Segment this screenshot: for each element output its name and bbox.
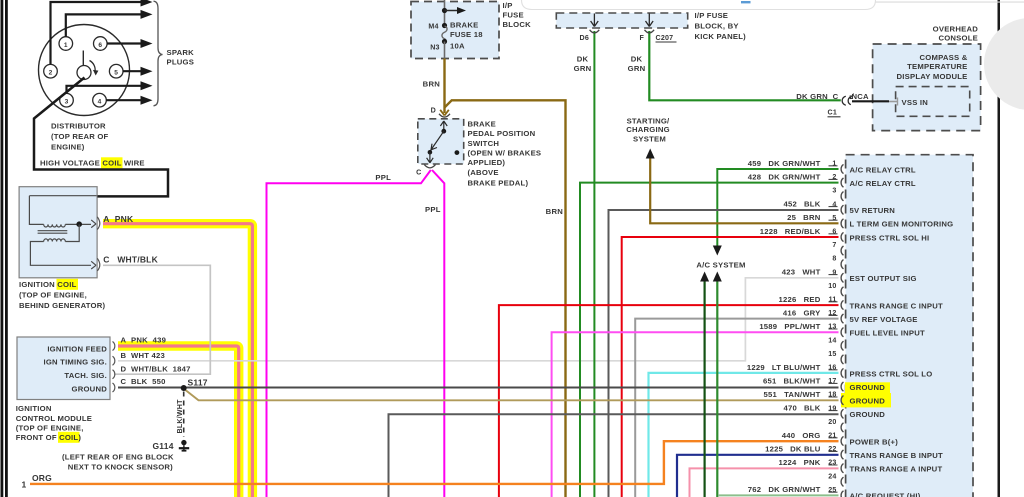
distributor rotor center circle <box>77 66 91 80</box>
wire PNK 439 core (ICM A to bottom) <box>118 346 239 497</box>
svg-text:18: 18 <box>828 391 836 399</box>
yellow highlight: COIL word in FRONT OF COIL <box>58 432 80 443</box>
coil internal left vertical <box>29 196 43 225</box>
F connector arc <box>645 30 655 33</box>
wire BLK 452 (PCM pin 4 down page) <box>609 210 839 497</box>
svg-text:I/P: I/P <box>503 1 513 10</box>
svg-text:16: 16 <box>828 364 836 372</box>
coil core lines <box>38 231 68 234</box>
wire WHT 423 (ICM pin B to PCM pin 9) <box>118 278 839 361</box>
wire BRN tee to right (down page) <box>445 100 566 497</box>
svg-text:1: 1 <box>832 160 836 168</box>
svg-text:VSS IN: VSS IN <box>902 98 929 107</box>
white browser tab overlay top center <box>522 0 876 10</box>
wire PNK core (coil A to bottom) <box>103 224 252 497</box>
svg-text:GROUND: GROUND <box>850 383 886 392</box>
svg-text:21: 21 <box>828 432 836 440</box>
spark plug wire from terminal 5 <box>123 70 142 72</box>
spark plug wire from terminal 1 <box>66 14 142 36</box>
ICM pin B connector arc <box>113 356 115 365</box>
svg-text:TRANS RANGE B INPUT: TRANS RANGE B INPUT <box>850 451 944 460</box>
svg-text:452 BLK: 452 BLK <box>783 200 820 209</box>
svg-text:COMPASS &: COMPASS & <box>920 53 968 62</box>
svg-text:3: 3 <box>832 187 836 195</box>
I/P fuse block box 1 (brake fuse) <box>411 2 499 59</box>
wire BRN (fuse N3 down to brake switch D) <box>443 59 445 114</box>
spark plug wire from terminal 2 (top arrow) <box>51 2 142 64</box>
svg-text:762 DK GRN/WHT: 762 DK GRN/WHT <box>748 485 821 494</box>
svg-text:GROUND: GROUND <box>850 410 886 419</box>
svg-text:(ABOVE: (ABOVE <box>468 168 499 177</box>
wire RED 1226 (PCM pin 11 down page) <box>499 305 839 497</box>
distributor cap terminal 6 <box>94 37 108 51</box>
svg-text:25 BRN: 25 BRN <box>787 213 821 222</box>
svg-text:1226 RED: 1226 RED <box>779 295 821 304</box>
svg-text:19: 19 <box>828 404 836 412</box>
NCA connector arcs at C1 <box>842 96 846 105</box>
svg-text:PPL: PPL <box>375 173 391 182</box>
brake switch pin C connector arc <box>424 165 435 168</box>
svg-text:428 DK GRN/WHT: 428 DK GRN/WHT <box>748 172 821 181</box>
svg-text:1589 PPL/WHT: 1589 PPL/WHT <box>759 322 820 331</box>
wire LT BLU/WHT 1229 (PCM pin 16 down page) <box>649 373 839 497</box>
svg-text:FUSE: FUSE <box>503 11 524 20</box>
svg-text:L TERM GEN MONITORING: L TERM GEN MONITORING <box>850 220 954 229</box>
svg-text:N3: N3 <box>430 44 439 52</box>
D6 connector arc <box>590 30 600 33</box>
svg-text:A PNK 439: A PNK 439 <box>121 336 167 345</box>
svg-text:CHARGING: CHARGING <box>626 125 670 134</box>
coil internal junction to pin A <box>65 223 91 225</box>
svg-text:A/C REQUEST (HI): A/C REQUEST (HI) <box>850 492 921 497</box>
svg-text:470 BLK: 470 BLK <box>783 404 820 413</box>
svg-text:20: 20 <box>828 418 836 426</box>
svg-text:GRN: GRN <box>574 64 592 73</box>
svg-text:C BLK 550: C BLK 550 <box>121 377 166 386</box>
ICM pin A connector arc <box>113 342 115 351</box>
distributor cap terminal 5 <box>109 64 123 78</box>
S117 splice dot <box>181 385 187 391</box>
wire WHT/BLK 1847 (coil pin C to ICM pin D) <box>103 265 210 374</box>
svg-text:13: 13 <box>828 323 836 331</box>
svg-text:BLK/WHT: BLK/WHT <box>176 399 184 434</box>
rotor shaft line <box>82 51 84 66</box>
ignition coil box <box>19 187 97 278</box>
yellow highlight: COIL word in IGNITION COIL <box>57 279 79 290</box>
svg-text:FRONT OF COIL): FRONT OF COIL) <box>16 433 82 442</box>
svg-text:IGNITION COIL: IGNITION COIL <box>19 280 77 289</box>
svg-text:GRN: GRN <box>628 64 646 73</box>
ICM pin D connector arc <box>113 370 115 379</box>
brake switch arm with arrow <box>430 131 444 151</box>
svg-text:4: 4 <box>832 200 836 208</box>
wire PPL/WHT 1589 (PCM pin 13 down page) <box>552 332 839 497</box>
svg-text:459 DK GRN/WHT: 459 DK GRN/WHT <box>748 159 821 168</box>
svg-text:F: F <box>639 34 644 42</box>
svg-text:423 WHT: 423 WHT <box>782 268 821 277</box>
svg-text:A/C RELAY CTRL: A/C RELAY CTRL <box>850 179 916 188</box>
wire BRN 25 (PCM pin 5 to starting/charging arrow) <box>650 156 838 223</box>
svg-text:(OPEN W/ BRAKES: (OPEN W/ BRAKES <box>468 148 542 157</box>
rotation arc arrow <box>90 61 96 72</box>
svg-text:PEDAL POSITION: PEDAL POSITION <box>468 129 536 138</box>
wire DK GRN (F to NCA C1) <box>649 31 841 100</box>
svg-text:416 GRY: 416 GRY <box>783 308 821 317</box>
distributor cap terminal 4 <box>93 93 107 107</box>
svg-text:SPARK: SPARK <box>167 48 195 57</box>
svg-text:DISTRIBUTOR: DISTRIBUTOR <box>51 122 106 131</box>
svg-text:2: 2 <box>49 70 53 77</box>
svg-text:D WHT/BLK 1847: D WHT/BLK 1847 <box>121 365 191 374</box>
overhead console compass & temperature display module box <box>873 44 981 131</box>
brake switch fixed contact dot <box>455 150 460 155</box>
svg-text:OVERHEAD: OVERHEAD <box>933 25 979 34</box>
fuse box: feed wire and arrow <box>444 0 446 27</box>
svg-text:PPL: PPL <box>425 205 441 214</box>
distributor cap terminal 1 <box>59 37 73 51</box>
yellow highlight: wire PNK (coil pin A to bottom) <box>103 224 252 497</box>
svg-text:ENGINE): ENGINE) <box>51 143 85 152</box>
svg-text:EST OUTPUT SIG: EST OUTPUT SIG <box>850 274 917 283</box>
svg-text:BRAKE PEDAL): BRAKE PEDAL) <box>468 179 529 188</box>
svg-text:M4: M4 <box>428 22 438 30</box>
svg-text:(TOP REAR OF: (TOP REAR OF <box>51 132 109 141</box>
svg-text:FUEL LEVEL INPUT: FUEL LEVEL INPUT <box>850 329 926 338</box>
BRN wire end barbs at D <box>440 110 449 116</box>
svg-text:2: 2 <box>832 173 836 181</box>
wire DK GRN dark (A/C system up-arrow left, from bottom) <box>703 281 705 497</box>
wire DK GRN (D6 down page) <box>593 31 595 497</box>
svg-text:STARTING/: STARTING/ <box>627 116 670 125</box>
svg-text:S117: S117 <box>188 377 208 387</box>
svg-text:CONTROL MODULE: CONTROL MODULE <box>16 414 92 423</box>
svg-text:DISPLAY MODULE: DISPLAY MODULE <box>897 72 968 81</box>
svg-text:5V RETURN: 5V RETURN <box>850 206 896 215</box>
svg-text:B WHT 423: B WHT 423 <box>121 351 166 360</box>
svg-text:3: 3 <box>65 99 69 106</box>
svg-text:440 ORG: 440 ORG <box>782 431 821 440</box>
svg-text:(LEFT REAR OF ENG BLOCK: (LEFT REAR OF ENG BLOCK <box>62 452 174 461</box>
svg-text:23: 23 <box>828 459 836 467</box>
PCM connector box (right, pins 1-25) <box>846 155 973 497</box>
svg-text:6: 6 <box>98 42 102 49</box>
svg-text:1: 1 <box>64 42 68 49</box>
spark plug wire from terminal 4 <box>106 99 141 101</box>
grey hairline top right <box>873 2 1024 3</box>
svg-text:1: 1 <box>22 480 27 490</box>
fuse element M4-N3 <box>442 23 447 28</box>
coil internal lower winding <box>44 239 66 242</box>
svg-text:GROUND: GROUND <box>850 397 886 406</box>
svg-text:17: 17 <box>828 377 836 385</box>
wire GRN (A/C system up-arrow right, from bottom) <box>716 281 718 497</box>
svg-text:5: 5 <box>832 214 836 222</box>
svg-text:BRAKE: BRAKE <box>468 119 496 128</box>
brake switch internal up arrow <box>440 121 447 131</box>
svg-text:ORG: ORG <box>32 473 52 483</box>
grey floating circle at right edge <box>984 18 1024 110</box>
svg-text:DK: DK <box>577 55 589 64</box>
high voltage coil wire (coil to distributor) <box>34 78 168 197</box>
G114 ground symbol <box>181 440 186 445</box>
svg-text:(TOP OF ENGINE,: (TOP OF ENGINE, <box>19 291 87 300</box>
brake switch arm to pin C arrow <box>427 152 434 163</box>
svg-text:IGN TIMING SIG.: IGN TIMING SIG. <box>43 358 107 367</box>
svg-text:A/C RELAY CTRL: A/C RELAY CTRL <box>850 165 916 174</box>
wire PNK 1224 (PCM pin 23 down page) <box>690 468 839 497</box>
svg-text:551 TAN/WHT: 551 TAN/WHT <box>764 390 821 399</box>
I/P fuse block box 2 (by kick panel) <box>556 13 687 28</box>
wire TAN/WHT 551 (S117 to PCM pin 18) <box>184 389 839 401</box>
svg-text:PRESS CTRL SOL HI: PRESS CTRL SOL HI <box>850 233 930 242</box>
wire BLK 470 (bottom up to PCM pin 19) <box>389 414 839 497</box>
coil internal path to pin C <box>30 242 91 266</box>
svg-text:10A: 10A <box>450 42 465 51</box>
svg-text:CONSOLE: CONSOLE <box>938 33 978 42</box>
brake switch pin D connector arc <box>439 114 450 117</box>
svg-text:DK: DK <box>631 55 643 64</box>
svg-text:G114: G114 <box>153 441 174 451</box>
svg-text:IGNITION FEED: IGNITION FEED <box>47 344 107 353</box>
svg-text:NEXT TO KNOCK SENSOR): NEXT TO KNOCK SENSOR) <box>68 462 173 471</box>
wire BLK 550 / BLK-WHT 651 (ICM pin C through S117 to PCM pin 17) <box>118 387 839 389</box>
svg-text:I/P FUSE: I/P FUSE <box>695 11 729 20</box>
VSS IN inner box <box>896 87 970 117</box>
yellow highlight: COIL word in HIGH VOLTAGE COIL WIRE <box>101 157 123 168</box>
BLK/WHT dashed wire S117 to G114 <box>183 392 185 438</box>
svg-text:TEMPERATURE: TEMPERATURE <box>907 62 967 71</box>
brake pedal position switch box <box>418 119 464 164</box>
wire DK GRN/WHT 428 (PCM pin 2 down page) <box>580 183 839 497</box>
svg-text:C WHT/BLK: C WHT/BLK <box>103 254 158 264</box>
yellow highlight: GROUND label pin 17 <box>845 382 890 395</box>
svg-text:9: 9 <box>832 268 836 276</box>
svg-text:POWER B(+): POWER B(+) <box>850 437 899 446</box>
coil internal upper winding <box>44 224 66 227</box>
svg-text:BLOCK: BLOCK <box>503 20 532 29</box>
wire black NCA to VSS IN <box>852 100 889 102</box>
coil internal secondary right vertical to junction <box>65 224 79 241</box>
svg-text:DK GRN C: DK GRN C <box>796 92 838 101</box>
svg-text:A/C SYSTEM: A/C SYSTEM <box>696 261 745 270</box>
curly brace for spark plugs <box>154 1 163 106</box>
svg-text:1224 PNK: 1224 PNK <box>779 458 821 467</box>
wire DK GRN/WHT 459 (PCM pin 1 to A/C system down-arrow) <box>717 169 838 249</box>
coil pin C connector arc <box>97 258 100 271</box>
svg-text:7: 7 <box>832 241 836 249</box>
arrow up to STARTING/CHARGING SYSTEM <box>646 149 655 159</box>
wire DK BLU 1225 (PCM pin 22 down page) <box>677 455 839 497</box>
svg-text:D6: D6 <box>580 34 589 42</box>
coil pin A connector arc <box>97 217 100 230</box>
PCM pin connector arcs 1-25 <box>841 164 843 497</box>
svg-text:GROUND: GROUND <box>72 384 108 393</box>
svg-text:BRN: BRN <box>423 80 441 89</box>
svg-text:1229 LT BLU/WHT: 1229 LT BLU/WHT <box>747 363 821 372</box>
svg-text:(TOP OF ENGINE,: (TOP OF ENGINE, <box>16 424 84 433</box>
ICM pin C connector arc <box>113 383 115 392</box>
svg-text:24: 24 <box>828 472 836 480</box>
spark plug wire from terminal 6 <box>107 42 141 44</box>
svg-text:SYSTEM: SYSTEM <box>633 134 666 143</box>
svg-text:8: 8 <box>832 255 836 263</box>
svg-text:11: 11 <box>829 296 837 304</box>
wire GRY 416 (PCM pin 12 down page) <box>635 319 838 497</box>
svg-text:APPLIED): APPLIED) <box>468 158 506 167</box>
wire ORG 440 (bottom run to PCM pin 21) <box>30 441 839 484</box>
svg-text:A PNK: A PNK <box>103 214 134 224</box>
svg-text:PRESS CTRL SOL LO: PRESS CTRL SOL LO <box>850 369 933 378</box>
yellow highlight: wire PNK 439 (ICM pin A to bottom) <box>118 346 239 497</box>
pin number underline ticks <box>829 166 838 492</box>
svg-text:15: 15 <box>828 350 836 358</box>
I/P fuse block 2 down arrows <box>591 14 599 27</box>
svg-text:22: 22 <box>828 445 836 453</box>
arrow down to A/C SYSTEM <box>713 246 722 256</box>
svg-text:1228 RED/BLK: 1228 RED/BLK <box>760 227 821 236</box>
svg-text:IGNITION: IGNITION <box>16 404 52 413</box>
svg-text:BRN: BRN <box>546 207 564 216</box>
svg-text:HIGH VOLTAGE COIL WIRE: HIGH VOLTAGE COIL WIRE <box>40 159 145 168</box>
svg-text:KICK PANEL): KICK PANEL) <box>695 32 747 41</box>
svg-text:C1: C1 <box>828 109 837 117</box>
ignition control module box <box>17 337 110 400</box>
svg-text:C207: C207 <box>656 34 674 42</box>
left page border double bars <box>1 0 4 497</box>
svg-text:D: D <box>431 107 436 115</box>
wire RED/BLK 1228 (PCM pin 6 down page) <box>622 237 839 497</box>
svg-text:NCA: NCA <box>852 92 870 101</box>
svg-text:6: 6 <box>832 228 836 236</box>
svg-text:10: 10 <box>828 282 836 290</box>
small blue dash in tab <box>741 1 751 3</box>
svg-text:TRANS RANGE C INPUT: TRANS RANGE C INPUT <box>850 301 944 310</box>
svg-text:1225 DK BLU: 1225 DK BLU <box>765 444 821 453</box>
svg-text:651 BLK/WHT: 651 BLK/WHT <box>763 376 821 385</box>
svg-text:5: 5 <box>114 70 118 77</box>
distributor outer circle <box>39 25 130 116</box>
svg-text:TACH. SIG.: TACH. SIG. <box>64 371 107 380</box>
svg-text:BRAKE: BRAKE <box>450 21 478 30</box>
distributor cap terminal 2 <box>44 64 58 78</box>
svg-text:C: C <box>416 169 421 177</box>
svg-text:PLUGS: PLUGS <box>167 58 195 67</box>
svg-text:TRANS RANGE A INPUT: TRANS RANGE A INPUT <box>850 465 943 474</box>
svg-text:SWITCH: SWITCH <box>468 139 500 148</box>
svg-text:12: 12 <box>828 309 836 317</box>
svg-text:25: 25 <box>828 486 836 494</box>
wire DK GRN/WHT 762 (tee to PCM pin 25) <box>718 494 839 496</box>
svg-text:BEHIND GENERATOR): BEHIND GENERATOR) <box>19 301 106 310</box>
coil internal: secondary top line to HV terminal <box>29 195 96 197</box>
wire PPL (brake switch C right branch down page) <box>432 170 444 497</box>
svg-text:4: 4 <box>98 99 102 106</box>
spark plug wire from terminal 3 <box>67 86 142 94</box>
page right border line <box>998 0 1001 497</box>
svg-text:5V REF VOLTAGE: 5V REF VOLTAGE <box>850 315 918 324</box>
yellow highlight: GROUND label pin 18 <box>841 393 891 407</box>
svg-text:14: 14 <box>828 336 836 344</box>
wire PPL (brake switch C left branch down page) <box>267 170 431 497</box>
svg-text:FUSE 18: FUSE 18 <box>450 30 483 39</box>
svg-text:BLOCK, BY: BLOCK, BY <box>695 21 739 30</box>
distributor cap terminal 3 <box>60 93 74 107</box>
